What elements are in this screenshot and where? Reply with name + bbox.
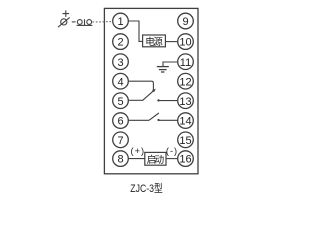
moving contact blade 5 [143, 90, 155, 101]
open contact blade 6-14 [149, 113, 159, 120]
svg-text:10: 10 [179, 37, 191, 49]
svg-text:6: 6 [117, 116, 123, 128]
terminal 6 [113, 113, 129, 129]
svg-text:12: 12 [179, 76, 191, 88]
svg-text:2: 2 [117, 37, 123, 49]
wire terminal 8 to start unit [128, 158, 145, 160]
svg-text:ZJC-3型: ZJC-3型 [130, 181, 163, 195]
wire terminal 5 to contact blade [128, 99, 143, 101]
svg-text:5: 5 [117, 96, 123, 108]
svg-text:8: 8 [117, 154, 123, 166]
terminal strip outline [104, 8, 198, 173]
wire terminal 11 to ground [163, 62, 178, 66]
ground [157, 66, 169, 68]
svg-text:(-): (-) [166, 146, 178, 156]
fuse/test terminal symbol [61, 19, 67, 25]
dashed supply lead to terminal 1 [92, 21, 112, 23]
terminal 10 [178, 34, 194, 50]
start unit box [145, 152, 166, 165]
terminal 9 [178, 13, 194, 29]
terminal 7 [113, 132, 129, 148]
wire terminal 4 to contact [128, 81, 153, 90]
svg-text:16: 16 [179, 154, 191, 166]
wire terminal 1 to power unit [128, 21, 142, 41]
svg-text:启动: 启动 [147, 153, 165, 166]
blade arrow tip [152, 89, 156, 93]
terminal 16 [178, 151, 194, 167]
terminal 11 [178, 54, 194, 70]
plus polarity mark [63, 10, 70, 17]
svg-text:1: 1 [117, 16, 123, 28]
terminal 8 [113, 151, 129, 167]
power unit box [143, 35, 166, 47]
terminal 2 [113, 34, 129, 50]
svg-text:13: 13 [179, 96, 191, 108]
svg-text:11: 11 [180, 57, 191, 69]
terminal 14 [178, 113, 194, 129]
wire start unit to terminal 16 [166, 158, 178, 160]
connecting link (removable strap) [77, 20, 82, 25]
terminal 1 [113, 13, 129, 29]
terminal 12 [178, 73, 194, 89]
wire power unit to terminal 10 [165, 41, 177, 43]
terminal 15 [178, 132, 194, 148]
svg-text:9: 9 [182, 16, 188, 28]
svg-text:电源: 电源 [145, 36, 163, 48]
svg-text:(+): (+) [131, 146, 145, 156]
wire terminal 6 to contact [128, 119, 149, 121]
fixed contact of terminal 13 [158, 100, 177, 102]
terminal 4 [113, 73, 129, 89]
terminal 5 [113, 93, 129, 109]
svg-text:15: 15 [179, 135, 191, 147]
svg-text:7: 7 [117, 135, 123, 147]
svg-text:14: 14 [179, 116, 191, 128]
svg-text:4: 4 [117, 76, 123, 88]
fixed contact of terminal 14 [158, 119, 177, 121]
terminal 3 [113, 54, 129, 70]
terminal numbers [117, 16, 191, 166]
wire dash between fuse and link [72, 21, 76, 23]
terminal 13 [178, 93, 194, 109]
svg-text:3: 3 [117, 57, 123, 69]
